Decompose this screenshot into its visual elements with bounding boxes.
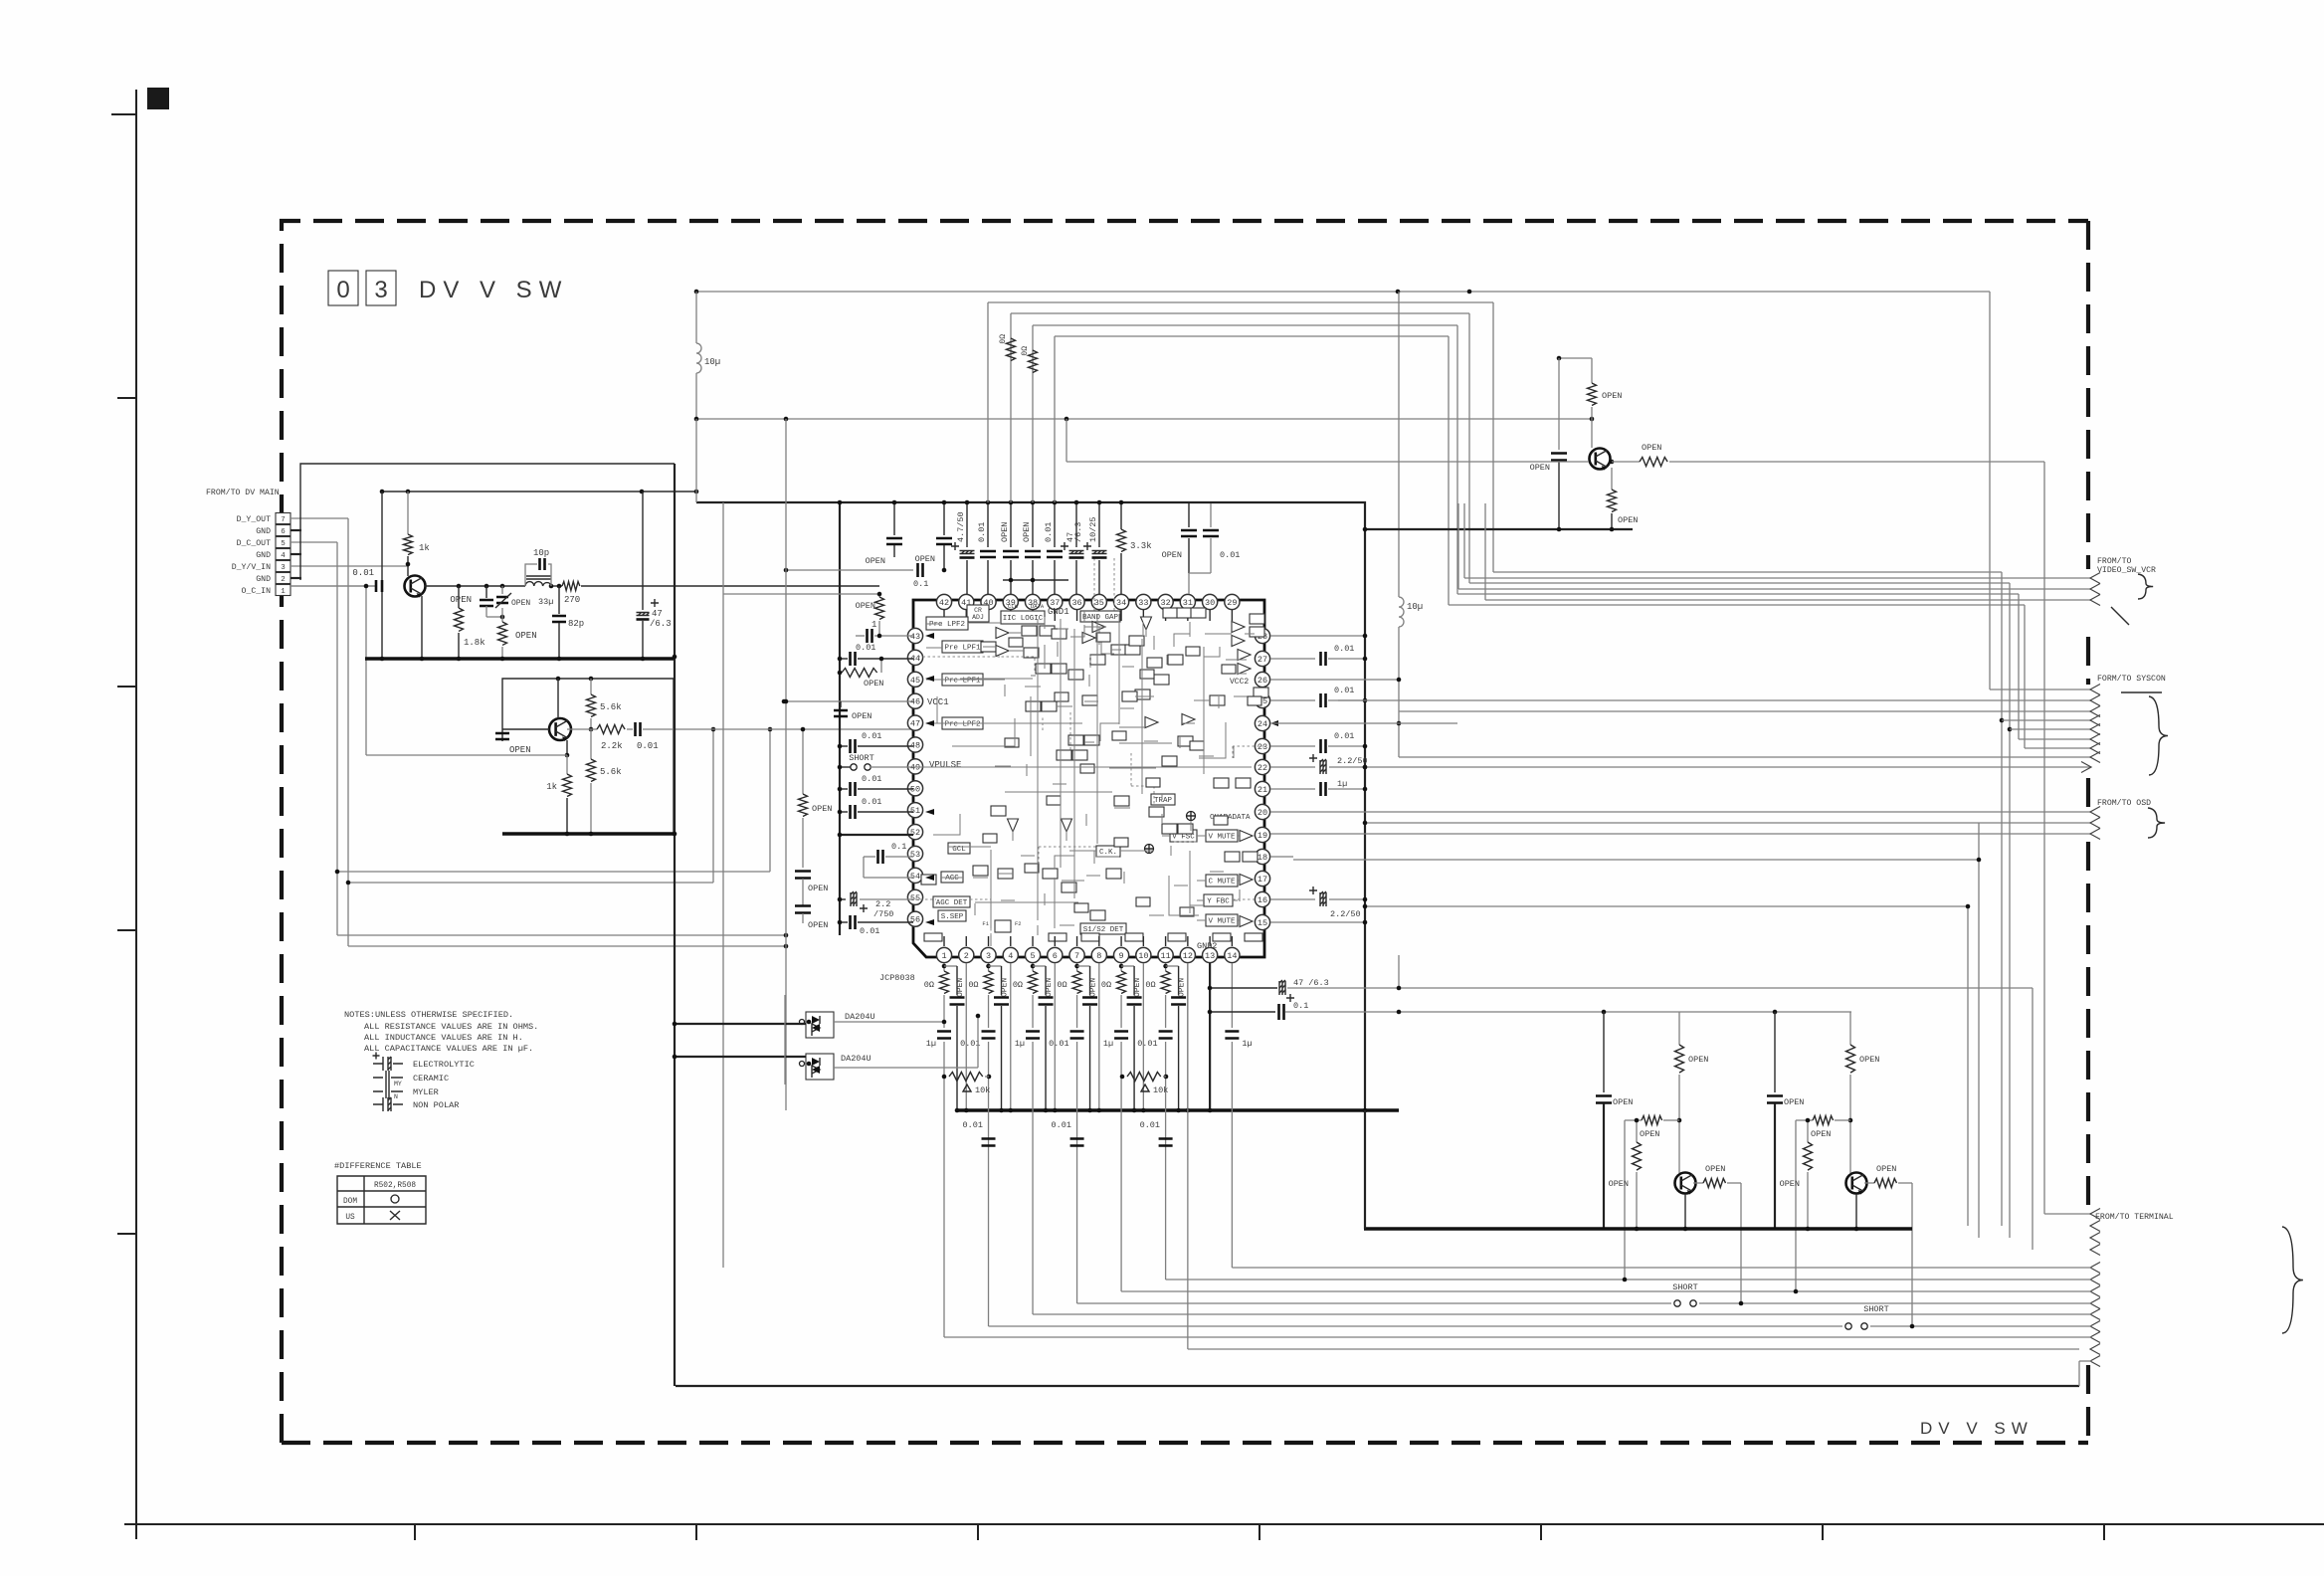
svg-text:D_Y_OUT: D_Y_OUT	[237, 515, 271, 524]
pin 49	[907, 759, 922, 774]
box2 ground bus	[502, 832, 674, 835]
svg-text:DA204U: DA204U	[845, 1012, 875, 1022]
svg-text:21: 21	[1258, 785, 1267, 795]
capacitor 1u pin14	[1231, 963, 1233, 1028]
internal box 40	[1122, 691, 1137, 701]
svg-text:7: 7	[1074, 951, 1079, 961]
terminal chevron y1244	[2090, 1233, 2100, 1244]
svg-text:Pre LPF2: Pre LPF2	[929, 621, 965, 629]
terminal chevron y1298	[2090, 1286, 2100, 1297]
svg-text:0.01: 0.01	[1334, 731, 1354, 741]
svg-text:55: 55	[910, 893, 920, 903]
wire syscon 7	[1399, 756, 2091, 758]
svg-text:4: 4	[1008, 951, 1013, 961]
svg-text:7: 7	[281, 516, 286, 524]
internal box 48	[991, 806, 1006, 816]
wire drop x700 low	[695, 419, 697, 502]
sheet number box 0	[328, 271, 358, 305]
svg-text:23: 23	[1258, 742, 1267, 752]
transistor Q1	[405, 576, 426, 597]
svg-text:33µ: 33µ	[538, 597, 553, 607]
wire pin19 to OSD	[1270, 833, 2091, 835]
internal amp 3	[1092, 622, 1105, 633]
svg-text:53: 53	[910, 850, 920, 860]
wire pin5 to terminal	[1033, 1313, 2091, 1315]
resistor 5.6k upper	[590, 679, 592, 694]
svg-text:OPEN: OPEN	[808, 884, 828, 893]
svg-text:ALL CAPACITANCE VALUES ARE IN: ALL CAPACITANCE VALUES ARE IN µF.	[364, 1044, 533, 1054]
pin 11	[1158, 947, 1173, 962]
pin 43	[907, 628, 922, 643]
wire y421 rail	[696, 418, 1592, 420]
wire 47 cap out	[1287, 987, 2033, 989]
wire syscon 3	[1399, 710, 2091, 712]
pin 23	[1255, 738, 1269, 753]
resistor OPEN cluster base	[1636, 1120, 1638, 1142]
wire drop x1072	[1065, 419, 1067, 462]
svg-text:DATA: DATA	[1031, 603, 1045, 610]
wire cluster out drop	[1911, 1183, 1913, 1326]
capacitor 82p	[558, 586, 560, 614]
difference table grid	[337, 1176, 426, 1224]
svg-text:Y FBC: Y FBC	[1207, 898, 1230, 906]
box1 outline top/left	[300, 464, 675, 580]
pin 44	[907, 650, 922, 665]
svg-text:47: 47	[910, 719, 920, 729]
wire Q2 base	[502, 728, 549, 730]
internal amp 4	[1232, 622, 1245, 633]
legend ceramic symbol	[373, 1071, 403, 1084]
wire rail y327	[1033, 324, 1457, 326]
block Pre LPF2 b	[942, 717, 983, 729]
pin 40	[981, 594, 996, 609]
difference table us mark	[390, 1211, 400, 1220]
wire y864 rail	[1293, 859, 1979, 861]
svg-text:0.1: 0.1	[891, 842, 906, 852]
svg-text:OPEN: OPEN	[1705, 1164, 1725, 1174]
internal box 1	[1022, 626, 1037, 636]
svg-text:8: 8	[1096, 951, 1101, 961]
capacitor 0.1 se	[1210, 1011, 1275, 1013]
svg-text:CERAMIC: CERAMIC	[413, 1074, 449, 1083]
wire syscon 5	[2019, 738, 2091, 740]
wire syscon 4b	[1270, 722, 1457, 724]
svg-text:MY: MY	[394, 1081, 402, 1087]
svg-text:31: 31	[1183, 598, 1193, 608]
capacitor OPEN bank b	[943, 502, 945, 535]
pin 41	[959, 594, 974, 609]
capacitor 0.01 pin44	[840, 658, 848, 660]
wire pin15	[1270, 921, 1365, 923]
pin stubs bottom	[943, 936, 945, 946]
bottom tick x1832	[1822, 1524, 1824, 1540]
wire drop x1477	[1468, 313, 1470, 583]
internal amp down a	[1008, 819, 1019, 832]
pin 10	[1136, 947, 1151, 962]
svg-text:OPEN: OPEN	[1642, 443, 1661, 453]
internal wires	[968, 622, 996, 624]
registration mark (black square)	[147, 88, 169, 109]
bottom tick x1549	[1540, 1524, 1542, 1540]
wire x1372 to cluster bus	[1364, 1110, 1366, 1229]
svg-text:0.01: 0.01	[977, 522, 987, 542]
internal amp 13	[1082, 633, 1095, 644]
internal box 5	[1036, 664, 1051, 674]
svg-text:52: 52	[910, 828, 920, 838]
wire pin1 to x368	[290, 585, 375, 587]
wire box1 left riser	[381, 492, 383, 659]
svg-text:1k: 1k	[419, 543, 430, 553]
pin 45	[907, 672, 922, 687]
resistor 1.8k	[458, 586, 460, 608]
wire pin1 feed y759	[366, 754, 567, 756]
pin 28	[1255, 628, 1269, 643]
capacitor 0.1 feed	[786, 569, 913, 571]
osd brace	[2148, 808, 2165, 838]
capacitor 0.01 pin50	[840, 788, 848, 790]
internal box 4	[981, 642, 996, 652]
block S1/S2 DET	[1080, 923, 1126, 934]
wire drop x993	[987, 302, 989, 502]
wire pin1 drop x368	[365, 586, 367, 755]
internal box 28	[1043, 869, 1058, 879]
wire pin20 CHARADATA to OSD	[1270, 811, 2091, 813]
svg-text:3.3k: 3.3k	[1130, 541, 1152, 551]
svg-text:2.2/50: 2.2/50	[1330, 909, 1361, 919]
capacitor 47/6.3 electrolytic	[642, 492, 644, 610]
video brace	[2138, 574, 2153, 599]
wire drop x1038	[1032, 325, 1034, 502]
wire pin14 to terminal	[1232, 1267, 2091, 1269]
wire pin4 gnd drop	[1010, 963, 1012, 1110]
capacitor OPEN chain b	[795, 906, 811, 913]
svg-text:OPEN: OPEN	[1022, 522, 1032, 542]
svg-text:F2: F2	[1015, 920, 1022, 927]
svg-text:0Ω: 0Ω	[1057, 980, 1066, 990]
internal box 32	[1149, 807, 1164, 817]
svg-text:0.01: 0.01	[1052, 1120, 1071, 1130]
wire pin24 arrow	[1270, 720, 1278, 726]
pin 9	[1113, 947, 1128, 962]
wire y1393 long	[676, 1385, 2079, 1387]
capacitor 0.1 pin53	[864, 856, 875, 858]
pin 17	[1255, 871, 1269, 886]
svg-text:0.01: 0.01	[1044, 522, 1054, 542]
pin 27	[1255, 651, 1269, 666]
resistor OPEN pin44 alt	[842, 669, 877, 678]
capacitor OPEN bank c	[1010, 502, 1012, 547]
internal box 17	[1163, 608, 1178, 618]
block Pre LPF1 b	[942, 674, 983, 686]
capacitor 0.01 pin56	[840, 921, 848, 923]
wire drop x790	[785, 419, 787, 1110]
capacitor 0.01 pin11	[1165, 995, 1167, 1028]
block C.K.	[1096, 846, 1120, 857]
bottom gnd bus	[956, 1108, 1399, 1111]
svg-text:DV V SW: DV V SW	[1920, 1419, 2033, 1438]
wire y911 rail	[1365, 905, 1968, 907]
wire 0.1 cap out cluster rail	[1285, 1011, 1851, 1013]
svg-text:5: 5	[1030, 951, 1035, 961]
resistor OPEN pin43 top	[878, 594, 880, 597]
internal att boxes bottom row	[924, 933, 942, 941]
diode D1 DA204U	[806, 1012, 834, 1038]
terminal chevron y1344	[2090, 1332, 2100, 1343]
internal amp down b	[1062, 819, 1072, 832]
internal mixer node a	[1187, 812, 1196, 821]
bottom tick x700	[695, 1524, 697, 1540]
svg-text:2.2k: 2.2k	[601, 741, 623, 751]
pin 46	[907, 693, 922, 708]
wire pin7 to terminal	[1077, 1302, 1671, 1304]
svg-text:VPULSE: VPULSE	[929, 760, 961, 770]
svg-text:54: 54	[910, 872, 920, 882]
capacitor OPEN pin5 branch	[1033, 965, 1046, 967]
svg-text:2.2: 2.2	[875, 899, 890, 909]
svg-text:/6.3: /6.3	[650, 619, 672, 629]
wire output row y733	[567, 728, 597, 730]
pin 21	[1255, 781, 1269, 796]
capacitor 0.01 pin11 low	[1159, 1139, 1173, 1146]
internal box 22	[1254, 688, 1268, 697]
svg-text:DOM: DOM	[343, 1198, 357, 1206]
svg-text:270: 270	[564, 595, 580, 605]
wire GND pin4 stub	[290, 553, 301, 555]
wire pin5 to x339	[290, 541, 337, 543]
internal box 47	[1162, 756, 1177, 766]
schematic dashed border	[282, 221, 2088, 1443]
wire jog y597	[1457, 593, 2019, 595]
capacitor 0.01 base	[290, 585, 375, 587]
bottom margin rule	[124, 1523, 2324, 1525]
wire drop x2043	[2032, 988, 2033, 1250]
capacitor OPEN right pair	[1188, 503, 1190, 527]
pin 7	[1069, 947, 1084, 962]
svg-text:OPEN: OPEN	[1609, 1179, 1629, 1189]
wire box1 row y589	[425, 585, 525, 587]
terminal chevron y1274	[2090, 1263, 2100, 1274]
wire drop x1465	[1456, 325, 1458, 594]
internal box 45	[1090, 655, 1105, 665]
svg-text:Pre LPF1: Pre LPF1	[944, 645, 981, 653]
terminal chevron y1356	[2090, 1344, 2100, 1355]
svg-text:0.01: 0.01	[1137, 1039, 1157, 1049]
svg-text:0.01: 0.01	[352, 568, 374, 578]
schematic dashed border right edge	[2086, 221, 2090, 1443]
svg-text:26: 26	[1258, 676, 1267, 686]
internal box 3	[1024, 648, 1039, 658]
wire cluster bias drop	[1624, 1120, 1626, 1280]
pin 34	[1113, 594, 1128, 609]
box1 ground bus	[365, 657, 675, 660]
terminal chevron y1286	[2090, 1275, 2100, 1285]
svg-text:AGC: AGC	[945, 875, 959, 883]
svg-text:BAND GAP: BAND GAP	[1082, 614, 1119, 622]
connector CN pin 6 GND	[276, 525, 290, 536]
internal box 35	[1214, 778, 1229, 788]
svg-text:1: 1	[871, 620, 876, 630]
bottom tick x983	[977, 1524, 979, 1540]
connector CN pin 1 O_C_IN	[276, 585, 290, 596]
svg-text:OPEN: OPEN	[1133, 978, 1142, 997]
resistor OPEN collector	[1591, 358, 1593, 383]
wire bus y887	[348, 882, 713, 884]
pin 15	[1255, 914, 1269, 929]
pin 31	[1180, 594, 1195, 609]
svg-text:F1: F1	[982, 920, 989, 927]
internal amp 10	[1240, 831, 1253, 842]
difference table dom mark	[391, 1195, 399, 1203]
svg-text:0: 0	[336, 277, 349, 303]
capacitor 0.01 bank a	[987, 502, 989, 547]
block Pre LPF2	[926, 617, 968, 630]
connector CN pin 5 D_C_OUT	[276, 537, 290, 548]
svg-text:0Ω: 0Ω	[1101, 980, 1111, 990]
svg-text:9: 9	[1119, 951, 1124, 961]
wire drop x1016	[1010, 313, 1012, 502]
svg-text:OPEN: OPEN	[956, 978, 965, 997]
internal dotted nets	[915, 898, 936, 900]
pin 38	[1025, 594, 1040, 609]
pin 53	[907, 846, 922, 861]
block V MUTE b	[1206, 914, 1238, 926]
svg-text:V MUTE: V MUTE	[1208, 918, 1236, 926]
resistor 0ohm top a	[1007, 338, 1016, 361]
wire GND pin6 stub	[290, 529, 301, 531]
svg-text:1µ: 1µ	[1337, 779, 1347, 789]
pin 16	[1255, 891, 1269, 906]
pin 35	[1091, 594, 1106, 609]
inductor 10u left	[695, 292, 697, 343]
wire x790 mid	[784, 699, 789, 704]
svg-text:OPEN: OPEN	[1784, 1097, 1804, 1107]
block C MUTE	[1206, 875, 1238, 886]
svg-text:22: 22	[1258, 763, 1267, 773]
svg-text:15: 15	[1258, 918, 1267, 928]
svg-text:SHORT: SHORT	[849, 753, 874, 763]
svg-text:10k: 10k	[1153, 1085, 1168, 1095]
svg-text:24: 24	[1258, 719, 1267, 729]
wire bus y940	[337, 934, 786, 936]
svg-text:OPEN: OPEN	[1618, 515, 1638, 525]
capacitor OPEN cluster	[1603, 1012, 1605, 1092]
svg-text:19: 19	[1258, 831, 1267, 841]
internal switch F1/F2	[995, 920, 1011, 932]
svg-text:4.7/50: 4.7/50	[956, 511, 966, 542]
wire pin8 gnd drop	[1098, 963, 1100, 1110]
connector CN pin 7 D_Y_OUT	[276, 513, 290, 524]
svg-text:DA204U: DA204U	[841, 1054, 871, 1064]
terminal chevron y1333	[2090, 1321, 2100, 1332]
capacitor OPEN in box2 left edge	[495, 733, 509, 739]
wire cluster bias drop	[1795, 1120, 1797, 1291]
internal amp 6	[1238, 650, 1251, 661]
svg-text:3: 3	[374, 277, 387, 303]
pin 25	[1255, 692, 1269, 707]
potentiometer 10k b	[1127, 1073, 1161, 1082]
internal box 11	[1068, 735, 1083, 745]
left margin tick y115	[111, 113, 136, 115]
svg-text:FROM/TO OSD: FROM/TO OSD	[2097, 798, 2151, 808]
svg-text:OPEN: OPEN	[1613, 1097, 1633, 1107]
internal box 27	[998, 869, 1013, 879]
pin 50	[907, 781, 922, 796]
svg-text:35: 35	[1094, 598, 1104, 608]
wire gnd bus y532	[1365, 528, 1633, 530]
svg-text:ELECTROLYTIC: ELECTROLYTIC	[413, 1060, 475, 1070]
resistor OPEN out	[1640, 458, 1667, 467]
wire box2 top edge dots	[556, 677, 561, 682]
internal box 30	[1090, 910, 1105, 920]
wire cluster out drop	[1740, 1183, 1742, 1303]
svg-text:OPEN: OPEN	[1859, 1055, 1879, 1065]
svg-text:36: 36	[1071, 598, 1081, 608]
svg-text:17: 17	[1258, 875, 1267, 885]
svg-text:CR: CR	[974, 607, 982, 614]
wire bus y876	[337, 871, 770, 873]
resistor OPEN cluster bias	[1625, 1119, 1642, 1121]
internal box 29	[1062, 883, 1076, 892]
capacitor 2.2/50 pin16	[1270, 898, 1315, 900]
capacitor 0.01 pin3	[988, 995, 990, 1028]
wire riser x774	[769, 729, 771, 872]
svg-text:GND: GND	[256, 575, 271, 584]
capacitor 0.01 pin23	[1270, 745, 1315, 747]
internal amp B	[1141, 617, 1152, 630]
block AGC DET	[933, 896, 970, 907]
svg-text:16: 16	[1258, 895, 1267, 905]
capacitor 1u pin21	[1270, 788, 1315, 790]
wire top rail dot	[694, 290, 699, 295]
internal box 9	[1068, 670, 1083, 680]
svg-text:OPEN: OPEN	[450, 595, 472, 605]
pin 32	[1158, 594, 1173, 609]
svg-text:0.01: 0.01	[1049, 1039, 1068, 1049]
svg-text:1µ: 1µ	[1103, 1039, 1113, 1049]
pin 37	[1048, 594, 1063, 609]
svg-text:0.01: 0.01	[856, 643, 875, 653]
svg-text:45: 45	[910, 676, 920, 686]
svg-text:/6.3: /6.3	[1073, 522, 1083, 542]
pin 18	[1255, 849, 1269, 864]
internal box 2	[1040, 626, 1055, 636]
capacitor OPEN bank d	[1032, 502, 1034, 547]
internal box 14	[1111, 645, 1126, 655]
svg-text:51: 51	[910, 806, 920, 816]
pin 24	[1255, 715, 1269, 730]
inductor 33u	[525, 582, 551, 586]
capacitor 1µ pin5	[1032, 995, 1034, 1028]
svg-text:14: 14	[1227, 951, 1237, 961]
svg-text:34: 34	[1116, 598, 1126, 608]
svg-text:10/25: 10/25	[1088, 516, 1098, 542]
wire base y464	[1066, 461, 1589, 463]
wire inductor 10u right	[1398, 292, 1400, 597]
potentiometer 10k a	[949, 1073, 983, 1082]
resistor 0ohm pin9	[1120, 963, 1122, 971]
wire syscon 5b	[2025, 747, 2091, 749]
internal box 18	[1177, 608, 1192, 618]
svg-text:VCC2: VCC2	[1230, 678, 1249, 687]
svg-text:0.01: 0.01	[1334, 686, 1354, 695]
svg-text:OPEN: OPEN	[1602, 391, 1622, 401]
svg-text:82p: 82p	[568, 619, 584, 629]
svg-text:OPEN: OPEN	[1640, 1129, 1659, 1139]
capacitor OPEN pin46	[840, 701, 842, 707]
svg-text:10: 10	[1138, 951, 1148, 961]
svg-text:TRAP: TRAP	[1154, 797, 1173, 805]
wire video c	[1485, 599, 2091, 601]
